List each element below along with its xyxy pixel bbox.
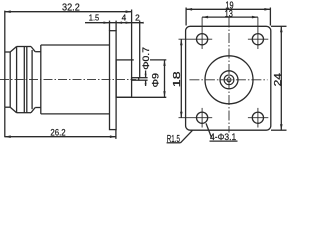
node: center pin circle [227,78,231,82]
wire: central horizontal centerline [189,79,267,81]
node: flange side view [110,31,117,130]
node: central circle large [205,56,253,104]
wire: dimension line 24 [280,26,282,130]
node: main body rectangle [40,45,42,114]
svg-text:4-Φ3.1: 4-Φ3.1 [210,132,236,142]
node: bolt hole top-right [252,34,263,45]
wire: arrowheads 13 [202,16,208,19]
wire: chamfer ring to nut bottom [10,107,16,113]
wire: central vertical centerline [228,18,230,133]
node: center contact pin [132,78,139,81]
wire: dimension line 32.2 [5,11,132,13]
wire: dimension line 1.5/4/2 [85,22,143,24]
node: central circle middle [220,71,238,89]
wire: dia9 extension lines [132,59,134,61]
wire: dia9 dimension line [164,60,166,97]
svg-text:26.2: 26.2 [50,128,65,138]
node: rear cylinder [116,60,132,97]
wire: arrowheads dia0.7 [145,74,147,78]
wire: front ring top edge [5,51,10,53]
wire: arrowheads 1.5 4 2 [104,22,110,24]
wire: chamfer ring to nut top [10,47,16,53]
wire: leader line R1.5 [181,130,193,143]
wire: arrowheads dia9 [163,60,165,66]
svg-text:13: 13 [225,9,234,20]
wire: hole centerlines vertical right column [257,17,259,49]
node: bolt hole top-left [197,34,208,45]
wire: hole centerlines horizontal top row [179,38,213,40]
wire: extension line right of 26.2 [115,130,117,139]
wire: extension line left for 32.2 and 26.2 at x=4.7 [4,11,6,52]
svg-text:2: 2 [135,14,140,23]
svg-text:R1.5: R1.5 [167,133,180,145]
wire: front ring bottom edge [5,106,10,108]
svg-text:18: 18 [172,71,183,87]
wire: extension line right of 32.2 at x=131.6 [131,10,133,60]
wire: dia0.7 arrow stems [145,71,147,78]
node: connector front face [4,52,6,107]
wire: neck between nut and body [35,51,41,53]
wire: arrowheads 18 [180,39,183,45]
wire: dimension line 13 [202,16,258,18]
node: flange front view outline [186,26,271,130]
wire: extension lines for flange thickness [109,21,111,31]
wire: front ring back edge [9,52,11,107]
node: bolt hole bottom-left [197,112,208,123]
wire: arrowheads 32.2 [5,10,11,13]
svg-text:1.5: 1.5 [89,14,100,23]
wire: dimension line 19 [186,8,270,10]
wire: nut rear face edge [31,50,33,109]
svg-text:24: 24 [273,72,284,86]
wire: dimension line 18 [180,39,182,118]
wire: nut rear chamfers [31,47,35,52]
wire: hole centerlines vertical left column [201,17,203,49]
svg-text:32.2: 32.2 [62,2,80,13]
node: central circle small [224,75,234,85]
wire: pin edge extension lines for dia 0.7 [139,77,148,79]
wire: arrowheads 19 [186,8,192,11]
wire: extension line for pin tip at x=139.7 [139,21,141,78]
node: bolt hole bottom-right [252,112,263,123]
wire: centerline of side view [0,79,136,81]
svg-text:Φ0.7: Φ0.7 [141,47,151,70]
wire: dimension line 26.2 [5,136,116,138]
wire: hole centerlines horizontal bottom row [179,117,213,119]
node: coupling nut outline [16,47,18,113]
wire: arrowheads 24 [280,26,283,32]
wire: arrowheads 26.2 [5,135,11,138]
svg-text:4: 4 [122,14,127,23]
wire: leader line 4-dia3.1 [206,123,212,137]
wire: knurl band lines [23,47,25,113]
svg-text:Φ9: Φ9 [150,73,160,88]
